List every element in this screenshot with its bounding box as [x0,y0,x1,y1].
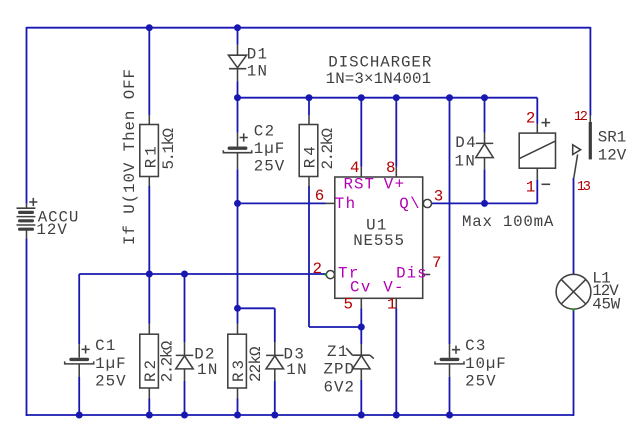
svg-text:R4: R4 [302,146,320,168]
wire Z1 bottom [360,380,362,416]
relay coil plus sign [542,118,551,127]
lamp L1 [556,274,591,309]
wire D3 top [274,308,276,342]
diode D1 [228,45,246,82]
wire R4 bottom vertical [308,186,310,327]
wire V- pin 1 down to ground bus [395,309,397,416]
junction [146,412,153,419]
svg-text:25V: 25V [465,373,496,391]
battery plus sign [29,198,37,206]
pin 6 stub [325,202,335,204]
wire Tr net to R2 top [148,274,150,324]
svg-text:1: 1 [526,178,535,196]
junction [76,412,83,419]
junction [234,305,241,312]
svg-text:13: 13 [577,180,591,195]
pin 8 stub [395,167,397,177]
wire bottom ground bus [26,414,574,416]
svg-text:12V: 12V [598,147,627,165]
wire R4 top [308,98,310,115]
wire C1 bottom [78,377,80,416]
pin 1 stub [395,298,397,308]
wire D1 bottom [237,82,239,98]
svg-text:1N=3×1N4001: 1N=3×1N4001 [326,70,432,88]
junction [481,94,488,101]
svg-text:1N: 1N [455,153,475,171]
svg-text:1µF: 1µF [254,140,284,158]
svg-text:D1: D1 [247,46,267,64]
wire R2 bottom [148,399,150,416]
wire C2 column down [237,203,239,308]
svg-text:2.2kΩ: 2.2kΩ [319,127,337,169]
resistor R3 [228,324,247,399]
wire R3 bottom [237,399,239,416]
svg-text:6V2: 6V2 [324,379,354,397]
svg-text:4: 4 [350,159,359,177]
wire D1 top [237,28,239,45]
relay coil minus sign [542,183,551,185]
svg-text:5: 5 [344,296,353,314]
svg-text:12: 12 [574,110,588,125]
svg-text:10µF: 10µF [465,355,506,373]
IC U1 NE555 body [335,177,423,298]
wire Q output net horizontal [432,202,538,204]
junction [306,94,313,101]
wire to R3 top [237,308,239,323]
wire D4 top [484,98,486,133]
junction [234,24,241,31]
relay contact arrow [573,145,581,155]
svg-text:C2: C2 [254,123,274,141]
resistor R2 [140,324,159,399]
wire RST pin 4 up to bus [360,98,362,167]
capacitor C3 plus sign [452,346,460,354]
junction [358,412,365,419]
junction [393,94,400,101]
pin 4 stub [360,167,362,177]
svg-text:R3: R3 [230,360,248,382]
svg-text:1: 1 [387,296,396,314]
wire C3 column from bus [449,98,451,345]
relay SR1 contact bar [589,122,592,159]
wire V+ distribution bus [238,97,538,99]
battery B1 ACCU [17,204,36,239]
svg-text:Max 100mA: Max 100mA [462,213,554,231]
capacitor C1 plus sign [82,345,90,353]
wire Cv pin 5 down [360,309,362,328]
wire R4 to Cv node horizontal [309,326,361,328]
junction [234,200,241,207]
wire lamp bottom to ground bus [573,309,575,416]
capacitor C1 [65,344,94,377]
junction [358,324,365,331]
wire relay contact 13 to lamp [573,178,575,274]
junction [481,200,488,207]
junction [358,94,365,101]
wire top supply bus [27,27,591,29]
wire Cv node to Z1 [360,327,362,344]
junction [446,412,453,419]
junction [393,412,400,419]
junction [446,94,453,101]
wire C2 top [237,98,239,133]
wire battery plus drop [26,27,28,204]
wire V+ pin 8 up to bus [395,98,397,167]
svg-text:RST: RST [344,176,374,194]
svg-text:7: 7 [432,254,441,272]
wire D3 bottom [274,381,276,416]
svg-text:D4: D4 [455,134,475,152]
svg-text:2: 2 [526,109,535,127]
wire D2 bottom [184,381,186,416]
relay SR1 coil [519,124,555,181]
svg-text:Cv: Cv [350,279,370,297]
wire top-right drop to relay contact [589,27,591,116]
svg-text:25V: 25V [254,158,285,176]
svg-text:If U(10V Then OFF: If U(10V Then OFF [121,69,139,245]
capacitor C2 plus sign [240,133,248,141]
junction [234,412,241,419]
svg-text:12V: 12V [36,221,67,239]
svg-text:C1: C1 [95,337,115,355]
svg-text:DISCHARGER: DISCHARGER [328,54,432,72]
zener diode Z1 [346,344,374,380]
pin connection dot lamp bottom [572,309,574,311]
svg-text:2: 2 [313,260,322,278]
wire D4 bottom [484,169,486,203]
svg-text:ZPD: ZPD [324,361,354,379]
junction [146,271,153,278]
wire R1 top [148,28,150,115]
wire Th net horizontal [238,202,326,204]
svg-text:R2: R2 [142,360,160,382]
junction [234,94,241,101]
svg-text:V-: V- [383,279,403,297]
wire Tr net horizontal [79,273,326,275]
svg-text:1N: 1N [247,63,267,81]
junction [271,412,278,419]
svg-text:SR1: SR1 [598,129,627,147]
svg-text:Z1: Z1 [327,343,347,361]
resistor R1 [140,115,159,186]
diode D3 [266,342,284,381]
svg-text:1N: 1N [286,361,306,379]
capacitor C2 [223,133,251,170]
pin 5 stub [360,298,362,308]
svg-text:6: 6 [315,187,324,205]
svg-text:C3: C3 [465,337,485,355]
svg-text:Th: Th [335,195,355,213]
svg-text:NE555: NE555 [353,232,404,250]
wire D2 top [184,274,186,342]
junction [181,271,188,278]
wire drop to relay coil plus [536,98,538,124]
pin 3 bubble [423,199,431,207]
relay SR1 contact stub [589,116,591,122]
wire branch to D3 horizontal [238,307,275,309]
junction [146,24,153,31]
svg-text:1N: 1N [197,361,217,379]
wire C1 top drop [78,274,80,344]
wire R1 bottom to Tr net [148,186,150,274]
wire up to relay coil minus [536,180,538,203]
wire C2 bottom to Th node [237,169,239,203]
svg-text:45W: 45W [592,296,621,314]
svg-text:3: 3 [434,187,443,205]
junction [181,412,188,419]
svg-text:Q\: Q\ [399,195,419,213]
wire battery minus to ground bus [26,238,28,416]
pin connection dot Tr [325,274,327,276]
svg-text:V+: V+ [384,176,404,194]
svg-text:1µF: 1µF [95,355,125,373]
relay contact arm [574,155,578,179]
pin 2 bubble [326,271,334,279]
diode D4 [476,133,494,170]
svg-text:25V: 25V [95,373,126,391]
svg-text:22kΩ: 22kΩ [247,346,265,382]
svg-text:5.1kΩ: 5.1kΩ [160,127,178,169]
diode D2 [176,342,194,381]
pin 7 stub [423,274,431,276]
wire C3 bottom [449,377,451,416]
svg-text:2.2kΩ: 2.2kΩ [158,340,176,382]
capacitor C3 [435,344,464,377]
resistor R4 [299,115,318,186]
svg-text:8: 8 [386,159,395,177]
